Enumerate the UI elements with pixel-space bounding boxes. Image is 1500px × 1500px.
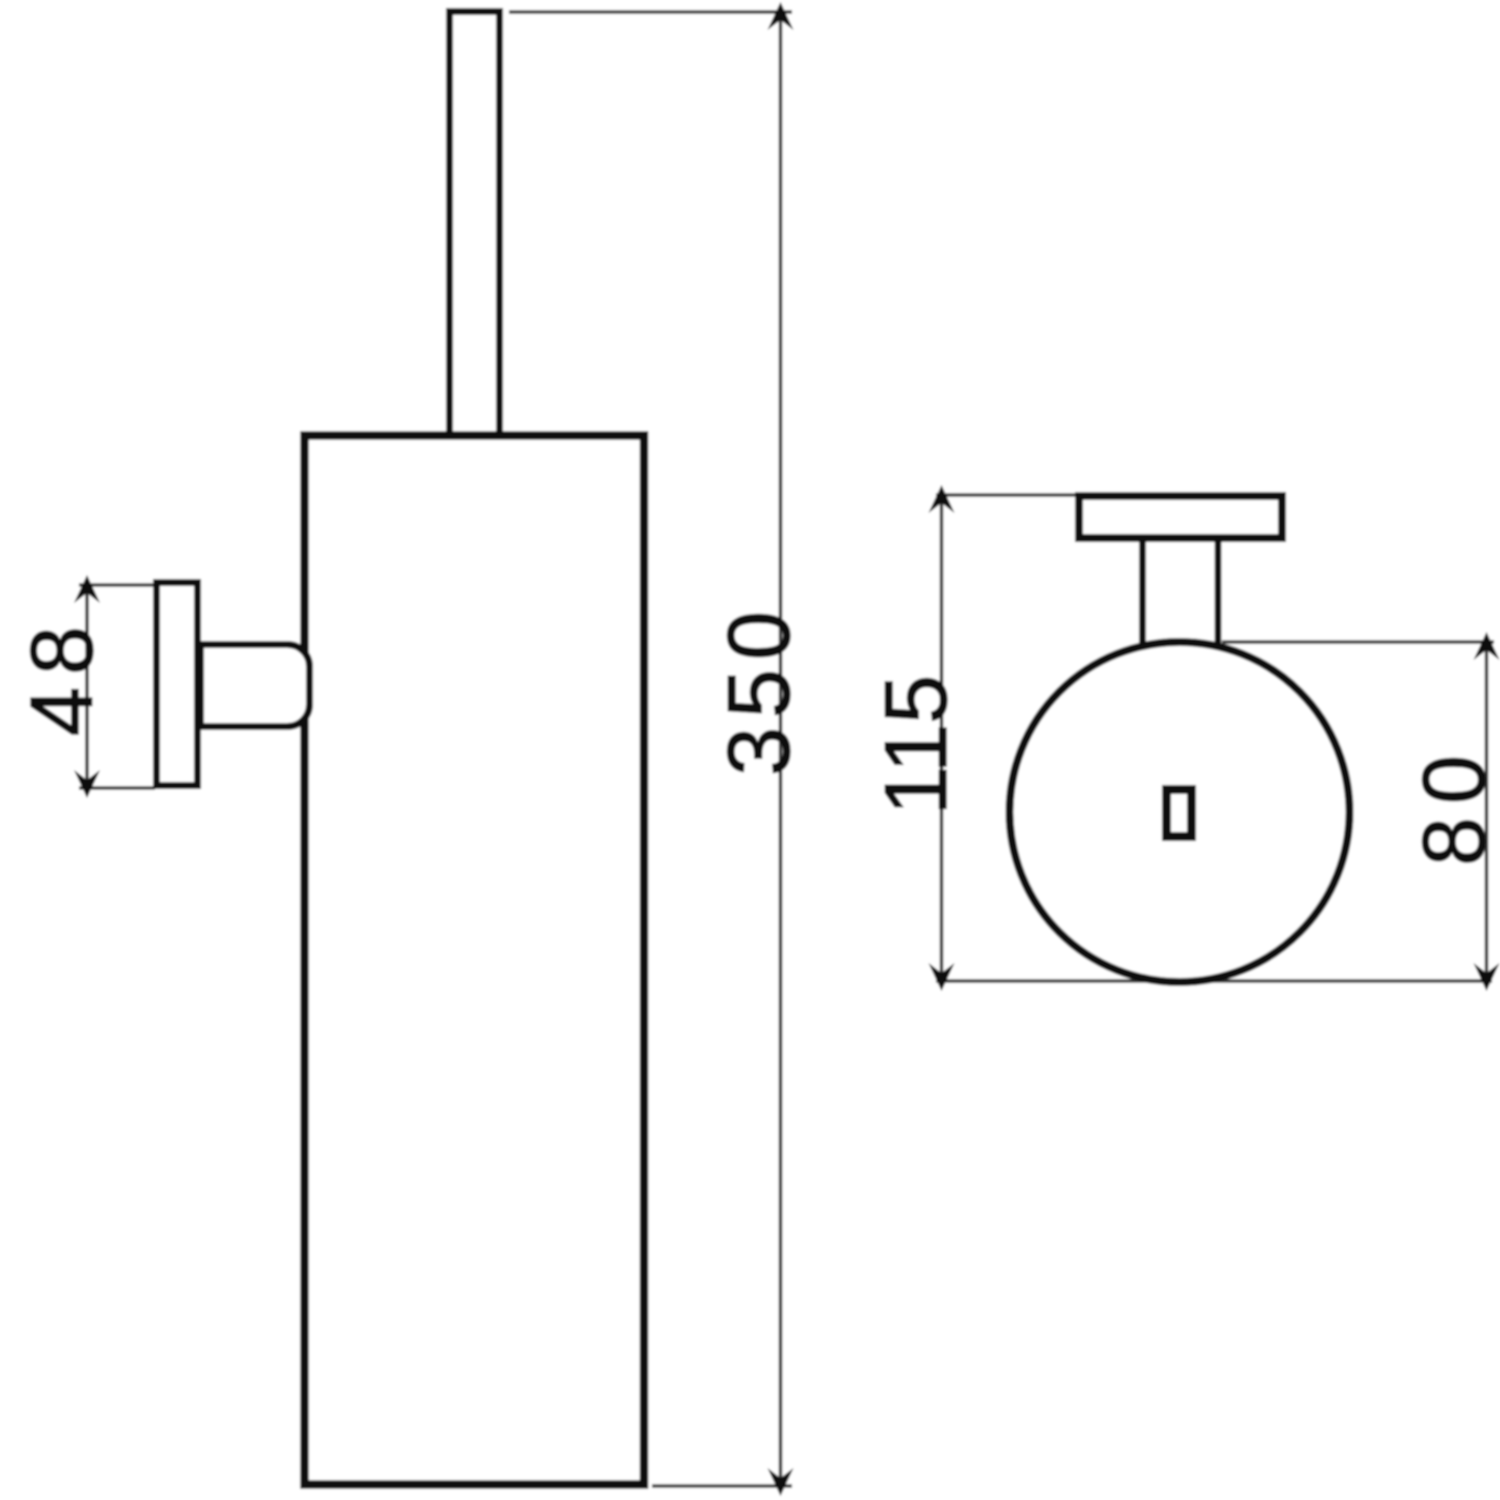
svg-text:115: 115	[866, 675, 965, 815]
svg-text:80: 80	[1404, 742, 1500, 866]
svg-text:350: 350	[709, 602, 808, 776]
svg-text:48: 48	[12, 614, 111, 736]
